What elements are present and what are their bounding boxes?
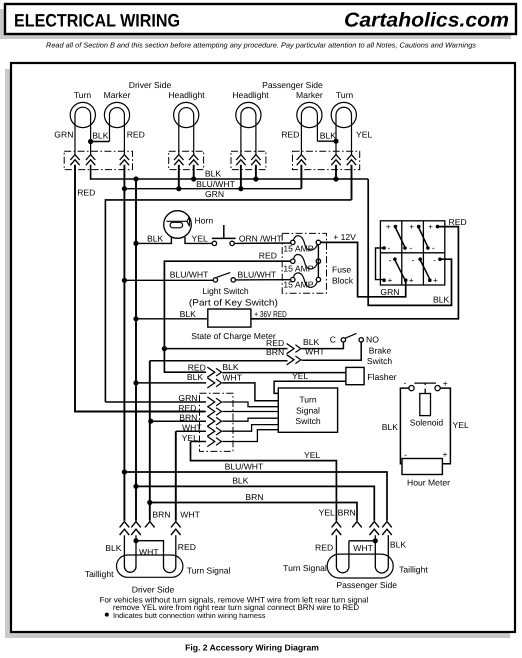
junction BLK row4 [133, 380, 138, 385]
wire BLU/WHT to light switch [124, 279, 213, 281]
brake switch NO circle [359, 338, 363, 342]
wire hl2 right drop [255, 165, 257, 179]
connector box passenger [293, 151, 360, 169]
horn connector circle right [230, 241, 234, 245]
svg-text:WHT: WHT [180, 509, 200, 519]
svg-text:(Part of Key Switch): (Part of Key Switch) [189, 298, 278, 308]
brake switch C circle [341, 338, 345, 342]
svg-text:+: + [386, 222, 391, 231]
state of charge meter box [208, 309, 251, 327]
svg-text:RED: RED [178, 403, 196, 413]
svg-text:Headlight: Headlight [168, 90, 205, 100]
horn icon [166, 220, 187, 222]
svg-text:NO: NO [366, 335, 379, 345]
svg-text:+ 12V: + 12V [333, 232, 356, 242]
junction driver WHT [133, 538, 138, 543]
battery B4 + terminal [382, 278, 386, 282]
svg-text:BRN: BRN [266, 347, 284, 357]
svg-text:-: - [432, 243, 435, 253]
svg-text:WHT: WHT [305, 347, 325, 357]
svg-text:WHT: WHT [182, 423, 202, 433]
svg-text:State of Charge Meter: State of Charge Meter [191, 331, 276, 341]
hour meter box [402, 459, 442, 475]
butt connector arrow BLK driver [86, 155, 95, 160]
svg-text:Turn Signal: Turn Signal [283, 563, 327, 573]
svg-text:+: + [443, 378, 448, 388]
svg-text:Horn: Horn [195, 216, 214, 226]
butt connector row2 [287, 355, 294, 365]
svg-text:BLU/WHT: BLU/WHT [170, 270, 209, 280]
butt connector arrow RED passenger [297, 155, 306, 160]
connector box driver [64, 151, 132, 169]
butt arrow driver 1 [120, 522, 130, 528]
wire ts BRN to box [222, 418, 278, 421]
svg-text:+: + [409, 222, 414, 231]
wire YEL bottom [191, 442, 337, 521]
junction horn BLK [133, 241, 138, 246]
butt arrow driver BRN [145, 522, 155, 528]
svg-text:C: C [330, 334, 336, 344]
junction marker RED on BLU/WHT bus [122, 186, 127, 191]
svg-text:GRN: GRN [380, 287, 399, 297]
svg-text:Cartaholics.com: Cartaholics.com [344, 10, 509, 32]
header shadow bar [0, 9, 511, 39]
svg-text:+: + [433, 276, 438, 285]
svg-text:YEL: YEL [319, 507, 335, 517]
wire ts GRN row [105, 401, 206, 403]
svg-text:Indicates butt connection with: Indicates butt connection within wiring … [113, 611, 266, 620]
solenoid coil [420, 394, 431, 416]
junction RED row1 [162, 346, 167, 351]
svg-text:15 AMP: 15 AMP [283, 264, 313, 274]
wire brake NO to row2 [302, 342, 362, 360]
battery link B1- to B4+ [376, 248, 385, 280]
wire ts RED to box [222, 411, 278, 413]
wire passenger taillight bulb [375, 535, 388, 573]
junction passenger WHT [373, 538, 378, 543]
svg-text:GRN: GRN [178, 393, 197, 403]
wire ts YEL row [191, 441, 207, 443]
battery link B2+ to B3- [419, 228, 428, 248]
svg-text:Taillight: Taillight [85, 569, 114, 579]
svg-text:RED: RED [449, 217, 467, 227]
wire passenger marker jog [317, 140, 336, 142]
fuse F2 15A [291, 259, 295, 263]
wire row4 BLK [136, 382, 206, 384]
wire row2 BRN [150, 360, 288, 362]
junction BLU/WHT bottom [122, 469, 127, 474]
fuse common vertical [317, 245, 319, 278]
junction hl1 left on BLU/WHT bus [176, 186, 181, 191]
svg-text:YEL: YEL [182, 433, 198, 443]
svg-text:WHT: WHT [353, 543, 373, 553]
wire ORN/WHT to fuse1 [234, 242, 291, 244]
butt connector arrow BLU/WHT hl2 left [236, 155, 245, 160]
wire passenger marker RED drop [300, 165, 302, 189]
wire driver BLK to arrow [135, 486, 137, 520]
svg-text:Flasher: Flasher [367, 372, 396, 382]
battery link B1+ to B2- [395, 228, 405, 248]
wire row3 BLK to flasher [222, 372, 346, 374]
light switch circle left [213, 278, 217, 282]
svg-text:+: + [388, 276, 393, 285]
svg-text:GRN: GRN [54, 130, 73, 140]
svg-text:Passenger Side: Passenger Side [262, 80, 323, 90]
wire RED fuse2 [164, 261, 290, 372]
svg-text:BRN: BRN [179, 413, 197, 423]
svg-text:15 AMP: 15 AMP [283, 279, 313, 289]
svg-text:RED: RED [127, 130, 145, 140]
svg-text:YEL: YEL [192, 234, 208, 244]
flasher box [346, 367, 364, 384]
connector box headlight passenger [231, 151, 266, 169]
wire hl2 left drop [240, 165, 242, 189]
svg-text:15 AMP: 15 AMP [283, 243, 313, 253]
svg-text:YEL: YEL [453, 420, 469, 430]
battery link B5- to B6+ [420, 260, 430, 279]
svg-text:+: + [409, 276, 414, 285]
butt connector arrow RED driver [120, 155, 129, 160]
lamp driver turn [70, 102, 95, 127]
wire BLU/WHT vertical [123, 189, 125, 472]
junction passenger turn BLK on bus [333, 176, 338, 181]
svg-text:BLU/WHT: BLU/WHT [225, 461, 264, 471]
wire driver taillight left [124, 535, 136, 572]
wire RED long vertical [75, 165, 205, 412]
svg-text:Headlight: Headlight [232, 90, 269, 100]
svg-text:-: - [387, 243, 390, 253]
svg-text:Fig. 2 Accessory Wiring Diagr: Fig. 2 Accessory Wiring Diagram [185, 643, 319, 653]
wire row4 WHT [222, 383, 278, 401]
battery B5 + terminal [404, 278, 408, 282]
horn button [212, 237, 236, 239]
battery link B4- to B5+ [395, 260, 405, 279]
svg-text:BLK: BLK [92, 131, 109, 141]
svg-text:Fuse: Fuse [332, 265, 351, 275]
brake switch blade [345, 333, 356, 338]
svg-text:Taillight: Taillight [399, 565, 428, 575]
junction driver BLK [88, 139, 93, 144]
svg-text:Passenger Side: Passenger Side [336, 580, 397, 590]
svg-text:WHT: WHT [222, 372, 242, 382]
wire BLU/WHT bottom [124, 472, 387, 521]
wire passenger turn BLK drop [335, 165, 337, 179]
butt connector arrow BLK hl2 right [251, 155, 260, 160]
wire ts BRN row [151, 420, 206, 422]
svg-text:Hour Meter: Hour Meter [407, 477, 450, 487]
svg-text:RED: RED [281, 130, 299, 140]
butt arrow passenger BRN [352, 522, 362, 528]
turn signal switch box [278, 388, 337, 432]
fuse block box [282, 233, 326, 293]
wire row1 BLK to brake C [302, 342, 344, 349]
light switch blade [217, 273, 231, 278]
wire solenoid YEL [440, 388, 450, 464]
wire passenger WHT branch [349, 540, 375, 542]
wire passenger turn YEL drop [351, 165, 353, 200]
lamp driver marker [104, 102, 129, 127]
svg-text:Solenoid: Solenoid [410, 417, 444, 427]
wire BRN vertical [149, 361, 151, 521]
wire battery mid BLK [368, 179, 451, 305]
wire hl1 left drop [178, 165, 180, 189]
note line 3 [105, 613, 109, 617]
svg-text:Signal: Signal [296, 405, 320, 415]
ts connector dashed box [200, 393, 234, 451]
butt connector arrow YEL passenger [347, 155, 356, 160]
svg-text:BRN: BRN [338, 507, 356, 517]
junction BLU/WHT light switch [122, 278, 127, 283]
svg-text:BLK: BLK [147, 234, 164, 244]
junction hl2 right on BLK bus [253, 176, 258, 181]
butt connector ts RED [207, 406, 214, 416]
svg-text:BLK: BLK [320, 131, 337, 141]
butt connector row3 [207, 367, 214, 377]
butt connector row1 [287, 344, 294, 354]
butt connector arrow BLU/WHT hl1 left [174, 155, 183, 160]
wire BRN bottom [150, 503, 357, 521]
butt connector ts YEL [207, 436, 214, 446]
battery bank box [380, 221, 444, 285]
wire BLK bus elbow [91, 165, 369, 179]
svg-text:BRN: BRN [152, 509, 170, 519]
junction hl2 left on BLU/WHT bus [238, 186, 243, 191]
svg-text:+: + [428, 222, 433, 231]
svg-text:Turn: Turn [299, 395, 317, 405]
wire GRN bus [105, 200, 351, 402]
wire hl1 right drop [193, 165, 195, 179]
svg-text:BLK: BLK [180, 309, 197, 319]
svg-text:Driver Side: Driver Side [132, 585, 175, 595]
junction BLK drop [133, 176, 138, 181]
svg-text:Switch: Switch [367, 356, 393, 366]
driver taillight capsule [117, 555, 183, 577]
svg-text:BLU/WHT: BLU/WHT [238, 270, 277, 280]
butt connector arrow BLK hl1 right [189, 155, 198, 160]
wire ts WHT row [176, 430, 206, 432]
wire driver marker RED below box [123, 165, 125, 189]
svg-text:Turn Signal: Turn Signal [187, 566, 231, 576]
butt arrow passenger BLUWHT [382, 522, 392, 528]
junction BLK bottom [133, 484, 138, 489]
svg-text:BLK: BLK [187, 372, 204, 382]
wire horn YEL lead [185, 237, 212, 243]
battery B1 - terminal [382, 246, 386, 250]
wire ts RED row [75, 411, 206, 413]
butt arrow passenger BLK [370, 522, 380, 528]
wire BLK vertical [135, 179, 137, 486]
passenger taillight capsule [327, 554, 393, 578]
lamp headlight driver [174, 102, 199, 127]
wire ts WHT to box [222, 425, 278, 432]
svg-text:YEL: YEL [304, 450, 320, 460]
wire driver WHT branch [136, 535, 176, 572]
svg-text:RED: RED [315, 542, 333, 552]
wire horn BLK lead [136, 237, 171, 243]
wire BLK to SoC meter [136, 318, 208, 320]
lamp headlight passenger [236, 102, 261, 127]
lamp passenger marker [297, 102, 322, 127]
butt connector ts WHT [207, 426, 214, 436]
butt connector ts BRN [207, 416, 214, 426]
svg-text:RED: RED [259, 250, 277, 260]
svg-text:BLK: BLK [222, 362, 239, 372]
wire flasher YEL [274, 381, 346, 393]
solenoid left circle [409, 386, 414, 391]
wire WHT vertical [175, 431, 177, 521]
junction passenger BLK [333, 139, 338, 144]
connector box headlight driver [169, 151, 204, 169]
fuse F3 15A [291, 277, 295, 281]
junction BRN ts [148, 419, 153, 424]
junction BRN bottom [147, 500, 152, 505]
wire BLU/WHT bus [124, 188, 301, 190]
svg-text:+ 36V RED: + 36V RED [254, 309, 286, 319]
battery B2 - terminal [403, 246, 407, 250]
butt connector arrow BLK passenger [331, 155, 340, 160]
svg-text:Turn: Turn [74, 90, 92, 100]
junction hl1 right on BLK bus [191, 176, 196, 181]
svg-text:BLK: BLK [232, 476, 249, 486]
svg-text:-: - [433, 255, 436, 265]
svg-text:ELECTRICAL WIRING: ELECTRICAL WIRING [14, 11, 180, 31]
wire passenger turn bulb [336, 535, 349, 573]
wire ts YEL to box [222, 430, 278, 442]
light switch circle right [231, 278, 235, 282]
svg-text:BLK: BLK [205, 169, 222, 179]
svg-text:-: - [409, 243, 412, 253]
horn circle [164, 211, 192, 239]
svg-text:Marker: Marker [296, 90, 323, 100]
butt connector row4 [207, 378, 214, 388]
svg-text:Marker: Marker [104, 90, 131, 100]
wire row1 RED [164, 348, 287, 350]
solenoid right circle [435, 386, 440, 391]
horn connector circle left [212, 241, 216, 245]
wire BLK bottom [136, 486, 374, 520]
lamp passenger turn [331, 102, 356, 127]
wire +12V from fuse1 [321, 242, 406, 296]
butt connector ts GRN [207, 397, 214, 407]
wire light switch to fuse3 [235, 279, 290, 281]
svg-text:ORN /WHT: ORN /WHT [239, 234, 283, 244]
svg-text:BLK: BLK [390, 540, 407, 550]
svg-text:-: - [389, 255, 392, 265]
butt connector arrow GRN driver [70, 155, 79, 160]
butt arrow passenger YEL [332, 522, 342, 528]
svg-text:YEL: YEL [292, 371, 308, 381]
svg-text:BLK: BLK [433, 295, 450, 305]
svg-text:Switch: Switch [295, 416, 321, 426]
svg-text:Driver Side: Driver Side [129, 80, 172, 90]
butt arrow driver 2 [131, 522, 141, 528]
svg-text:BLK: BLK [382, 422, 399, 432]
svg-text:Light Switch: Light Switch [202, 286, 249, 296]
svg-text:RED: RED [178, 542, 196, 552]
svg-text:-: - [404, 377, 407, 387]
svg-text:Brake: Brake [369, 346, 392, 356]
butt arrow driver WHT [171, 522, 181, 528]
svg-text:Block: Block [332, 276, 354, 286]
svg-text:Turn: Turn [336, 90, 354, 100]
svg-text:Read all of Section B and this: Read all of Section B and this section b… [46, 41, 476, 50]
svg-text:BLK: BLK [105, 543, 122, 553]
wire solenoid BLK [400, 388, 409, 464]
battery B3 - terminal [426, 246, 430, 250]
wire driver BLU/WHT to arrow [123, 472, 125, 521]
fuse F1 15A [291, 240, 295, 244]
svg-text:BRN: BRN [245, 492, 263, 502]
solenooid bar [414, 382, 436, 384]
battery B6 + terminal [428, 278, 432, 282]
wire +36V RED [251, 227, 459, 319]
svg-text:RED: RED [77, 188, 95, 198]
junction BLK SoC [133, 316, 138, 321]
wire driver marker jog [91, 141, 110, 143]
svg-text:-: - [412, 255, 415, 265]
svg-text:+: + [443, 450, 448, 460]
wire ts GRN to box [222, 402, 278, 407]
svg-text:GRN: GRN [205, 189, 224, 199]
svg-text:YEL: YEL [356, 130, 372, 140]
header box [5, 4, 516, 34]
svg-text:BLU/WHT: BLU/WHT [196, 179, 235, 189]
